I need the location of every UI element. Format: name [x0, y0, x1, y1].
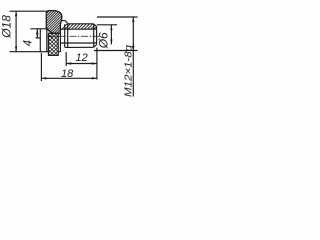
svg-text:M12×1-8g: M12×1-8g [123, 44, 134, 97]
svg-text:4: 4 [23, 40, 35, 46]
svg-text:Ø6: Ø6 [97, 32, 111, 49]
svg-text:12: 12 [76, 52, 88, 64]
svg-text:18: 18 [61, 68, 74, 80]
svg-text:Ø18: Ø18 [0, 15, 13, 39]
